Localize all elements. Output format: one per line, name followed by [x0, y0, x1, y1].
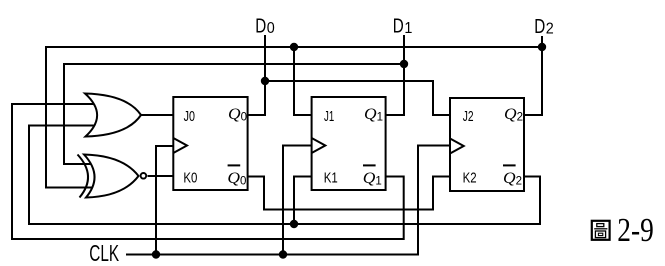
XNOR gate U2 — [78, 155, 147, 198]
flip-flop U5 (J2/K2) box — [450, 98, 524, 191]
junction dot Q2bar bus / K1 — [290, 220, 298, 228]
svg-text:J0: J0 — [184, 108, 195, 125]
svg-text:D: D — [534, 16, 545, 38]
junction dot top bus / J1 — [290, 43, 298, 51]
wire net Q0/D0: bus y=81 to J2 input — [265, 81, 450, 115]
svg-text:2: 2 — [516, 175, 522, 187]
svg-text:K2: K2 — [463, 169, 477, 186]
svg-text:1: 1 — [404, 20, 412, 37]
svg-text:2: 2 — [546, 20, 554, 37]
svg-text:J2: J2 — [463, 108, 474, 125]
svg-text:Q: Q — [503, 170, 516, 187]
junction dot CLK / FF0 — [152, 250, 160, 258]
overline Q0bar — [228, 164, 241, 166]
svg-text:1: 1 — [377, 112, 383, 124]
svg-text:Q: Q — [504, 106, 517, 123]
figure label glyph (CJK) — [592, 221, 610, 240]
wire net Q2/D2: top bus y=47 from corner x=46 down to XNOR lower input — [46, 47, 542, 188]
clock triangle U3 — [173, 138, 187, 153]
wire OR gate output to J0 — [140, 114, 173, 116]
wire branch to K1 input — [294, 177, 312, 225]
wire net Q1bar: bus y=239 from Q1bar pin left and up to OR upper input — [12, 104, 404, 239]
wire net Q1/D1: bus y=64 from corner x=64 down to XNOR upper input — [64, 64, 404, 164]
junction dot D0 bus — [261, 77, 269, 85]
svg-text:Q: Q — [228, 106, 241, 123]
wire CLK bus y=254.5 up to FF2 clock input — [126, 146, 450, 255]
clock triangle U5 — [450, 139, 464, 154]
svg-text:1: 1 — [375, 175, 381, 187]
svg-text:2: 2 — [517, 112, 523, 124]
overline Q1bar — [363, 164, 376, 166]
junction dot top bus / D2 / Q2 — [538, 43, 546, 51]
svg-text:0: 0 — [240, 175, 246, 187]
wire net Q0bar to K2 input, bus y=209.5 — [248, 177, 450, 210]
junction dot CLK / FF1 — [279, 250, 287, 258]
svg-text:2-9: 2-9 — [617, 212, 654, 249]
overline Q2bar — [503, 164, 516, 166]
svg-text:0: 0 — [241, 112, 247, 124]
svg-text:K0: K0 — [183, 169, 197, 186]
wire XNOR gate output to K0 — [148, 175, 174, 177]
wire branch to J1 input — [294, 46, 312, 115]
svg-text:D: D — [393, 15, 404, 37]
flip-flop U4 (J1/K1) box — [312, 97, 386, 190]
svg-text:K1: K1 — [324, 169, 338, 186]
svg-text:0: 0 — [267, 20, 275, 37]
wire D0 label stub down to Q0 output pin — [248, 35, 265, 115]
svg-text:CLK: CLK — [89, 240, 119, 266]
wire CLK branch to FF0 clock — [156, 146, 173, 255]
wire net Q2bar: bus y=224 from Q2bar pin left and up to OR lower input — [29, 126, 540, 225]
svg-text:Q: Q — [227, 170, 240, 187]
wire D1 label stub down to Q1 output pin — [386, 35, 405, 115]
wire CLK branch to FF1 clock — [283, 146, 312, 255]
clock triangle U4 — [312, 138, 326, 153]
flip-flop U3 (J0/K0) box — [173, 97, 247, 190]
wire D2 label stub down to Q2 output pin — [524, 36, 542, 115]
svg-text:Q: Q — [364, 106, 377, 123]
svg-text:Q: Q — [363, 170, 376, 187]
OR gate U1 — [85, 94, 141, 137]
junction dot D1 bus — [400, 60, 408, 68]
svg-text:D: D — [255, 15, 266, 37]
svg-text:J1: J1 — [324, 108, 334, 125]
